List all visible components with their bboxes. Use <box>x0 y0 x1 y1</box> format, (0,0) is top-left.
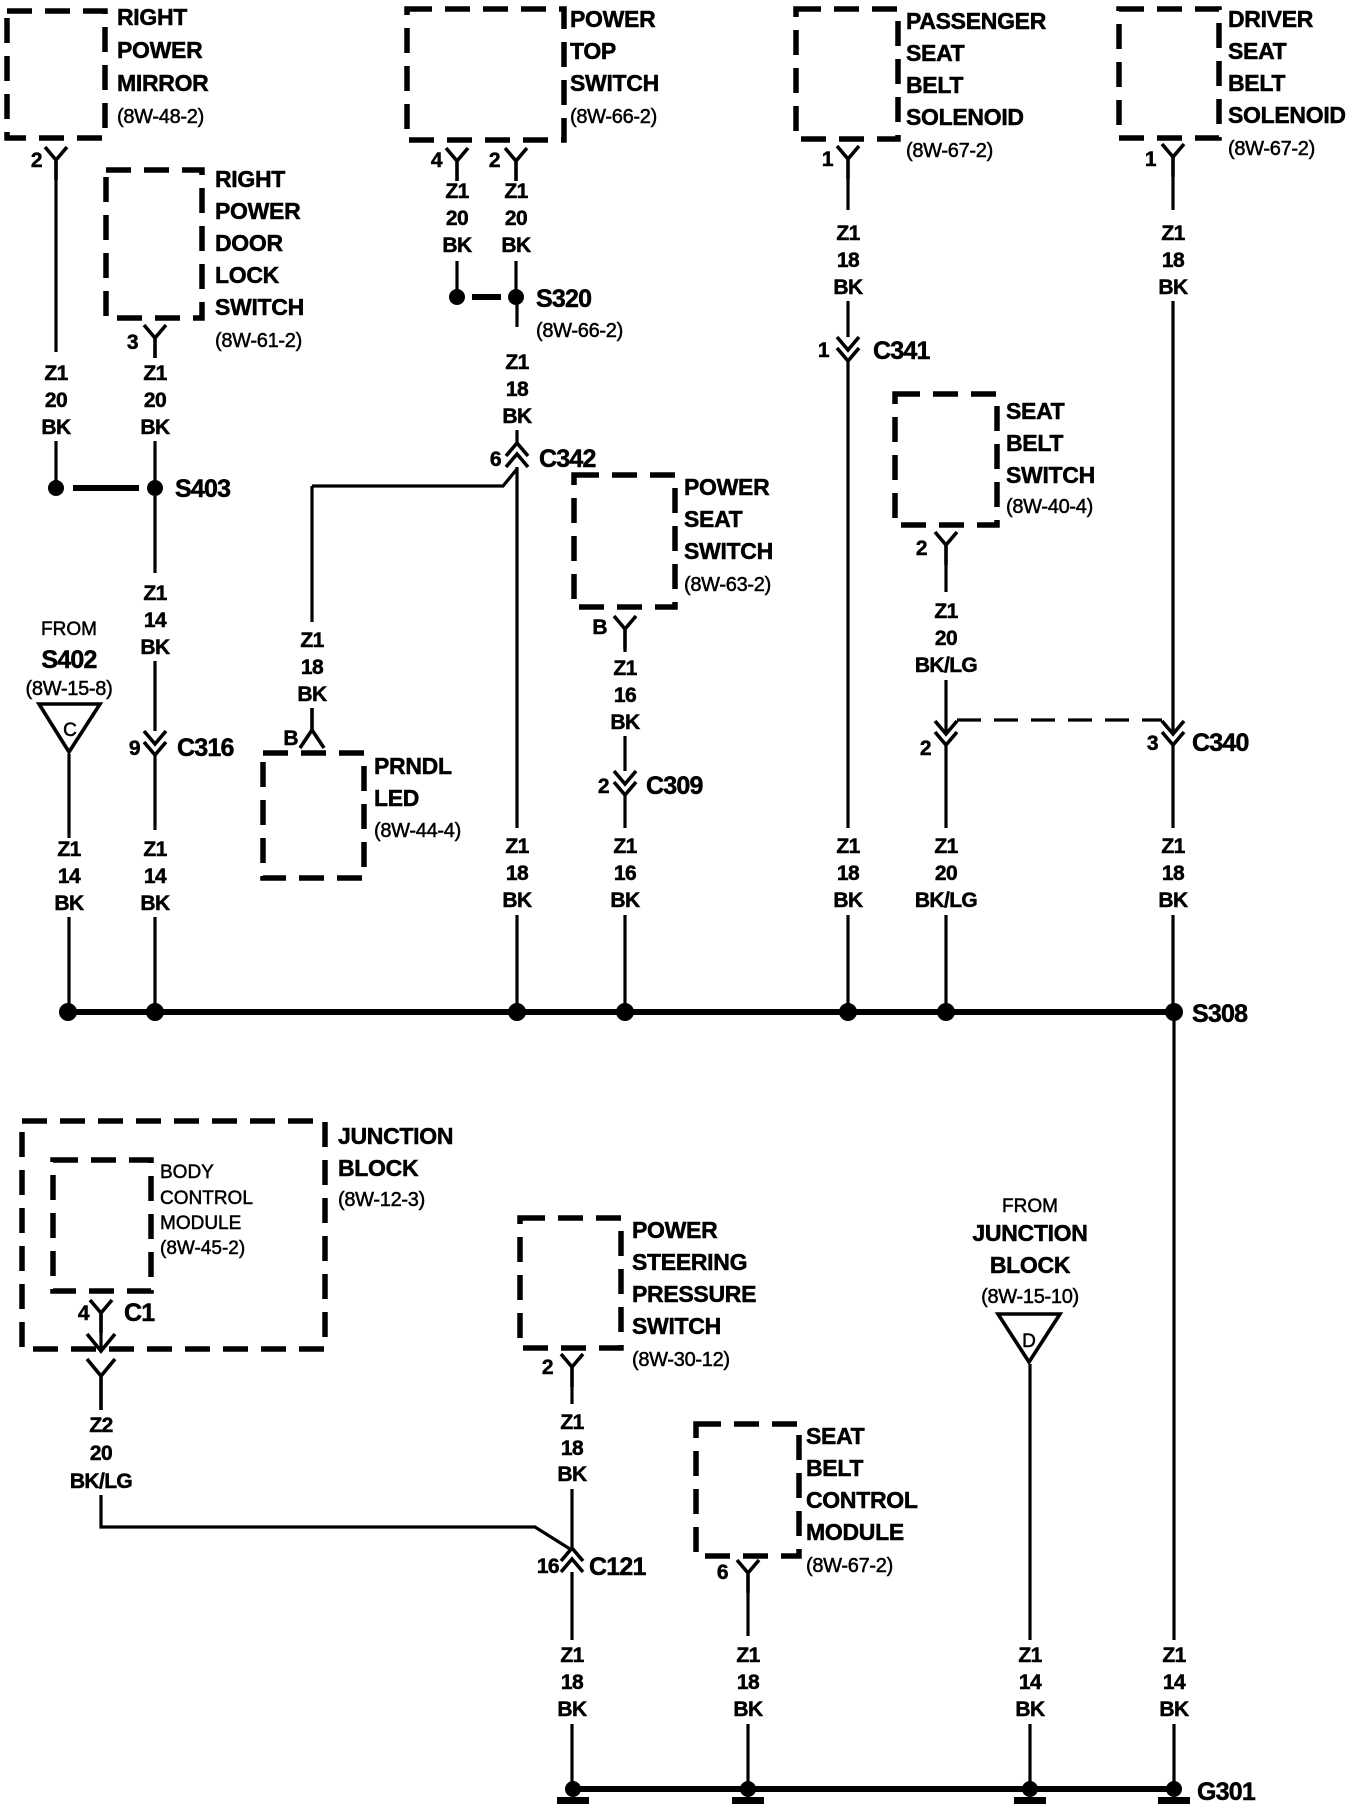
component DRIVER SEAT BELT SOLENOID (8W-67-2) <box>1119 6 1346 160</box>
pin B of POWER SEAT SWITCH <box>592 616 636 649</box>
svg-text:PRESSURE: PRESSURE <box>632 1281 756 1307</box>
wire Z1 20 BK/LG from C340 pin 2 to splice S308 <box>915 744 978 1012</box>
svg-text:SEAT: SEAT <box>806 1423 865 1449</box>
svg-text:Z1: Z1 <box>1162 1644 1186 1667</box>
off-page connector D FROM JUNCTION BLOCK (8W-15-10) <box>972 1196 1087 1362</box>
svg-text:20: 20 <box>505 207 527 230</box>
svg-text:BK: BK <box>41 416 71 439</box>
svg-text:(8W-61-2): (8W-61-2) <box>215 330 302 352</box>
svg-text:Z1: Z1 <box>613 657 637 680</box>
svg-text:BK: BK <box>733 1698 763 1721</box>
svg-text:MODULE: MODULE <box>160 1213 241 1234</box>
svg-text:S308: S308 <box>1192 1000 1248 1028</box>
svg-text:BK: BK <box>610 889 640 912</box>
svg-text:Z1: Z1 <box>143 362 167 385</box>
svg-text:POWER: POWER <box>117 37 203 63</box>
svg-text:C121: C121 <box>589 1553 646 1581</box>
splice S320 (8W-66-2) <box>449 285 623 342</box>
svg-text:Z1: Z1 <box>560 1411 584 1434</box>
component POWER TOP SWITCH (8W-66-2) <box>407 6 659 140</box>
svg-text:SWITCH: SWITCH <box>684 538 773 564</box>
svg-text:Z1: Z1 <box>445 180 469 203</box>
svg-text:(8W-15-10): (8W-15-10) <box>981 1286 1079 1308</box>
svg-text:(8W-15-8): (8W-15-8) <box>26 678 113 700</box>
wire Z1 18 BK from C342 to splice S308 <box>502 467 532 1012</box>
svg-text:3: 3 <box>127 331 138 354</box>
svg-text:POWER: POWER <box>570 6 656 32</box>
svg-text:18: 18 <box>837 249 860 272</box>
wire from PRNDL LED junction to C342 <box>312 469 517 622</box>
svg-text:2: 2 <box>542 1356 553 1379</box>
svg-text:18: 18 <box>1162 249 1185 272</box>
svg-text:SEAT: SEAT <box>906 40 965 66</box>
svg-text:BK: BK <box>297 683 327 706</box>
wire Z1 20 BK from door lock pin 3 to splice S403 <box>140 352 170 488</box>
splice S403 <box>48 475 230 503</box>
svg-text:BK: BK <box>140 892 170 915</box>
pin 1 of DRIVER SEAT BELT SOLENOID <box>1145 144 1184 177</box>
svg-text:Z1: Z1 <box>934 835 958 858</box>
svg-text:18: 18 <box>561 1437 584 1460</box>
svg-text:Z1: Z1 <box>300 629 324 652</box>
svg-text:Z1: Z1 <box>934 600 958 623</box>
svg-text:S402: S402 <box>41 646 96 674</box>
svg-text:BLOCK: BLOCK <box>990 1252 1071 1278</box>
svg-text:3: 3 <box>1147 732 1158 755</box>
svg-text:18: 18 <box>561 1671 584 1694</box>
svg-text:2: 2 <box>31 149 42 172</box>
svg-text:SOLENOID: SOLENOID <box>906 104 1024 130</box>
svg-text:BK: BK <box>140 416 170 439</box>
svg-text:SWITCH: SWITCH <box>215 294 304 320</box>
svg-text:BK: BK <box>140 636 170 659</box>
svg-text:PRNDL: PRNDL <box>374 753 452 779</box>
svg-text:4: 4 <box>431 149 443 172</box>
svg-text:BK/LG: BK/LG <box>915 889 978 912</box>
pin 3 of RIGHT POWER DOOR LOCK SWITCH <box>127 325 166 358</box>
svg-text:14: 14 <box>1163 1671 1186 1694</box>
connector C340 pin 3 <box>1147 721 1249 757</box>
svg-text:BK: BK <box>833 276 863 299</box>
wire Z1 18 BK from seat belt control module to ground G301 <box>733 1593 763 1789</box>
wire Z1 14 BK from S403 to connector C316 <box>140 496 170 731</box>
svg-text:14: 14 <box>144 609 167 632</box>
svg-text:SOLENOID: SOLENOID <box>1228 102 1346 128</box>
svg-text:C309: C309 <box>646 772 703 800</box>
svg-text:Z1: Z1 <box>613 835 637 858</box>
svg-text:18: 18 <box>301 656 324 679</box>
connector C340 pin 2 <box>920 721 957 760</box>
junction block lower pin <box>87 1359 115 1410</box>
svg-text:16: 16 <box>537 1555 559 1578</box>
svg-text:16: 16 <box>614 862 636 885</box>
component SEAT BELT CONTROL MODULE (8W-67-2) <box>696 1423 918 1577</box>
wire Z1 18 BK from pressure switch to connector C121 <box>557 1387 587 1548</box>
wire Z1 18 BK from passenger solenoid to connector C341 <box>833 179 863 337</box>
svg-text:Z1: Z1 <box>505 835 529 858</box>
svg-text:STEERING: STEERING <box>632 1249 747 1275</box>
svg-text:B: B <box>283 727 298 750</box>
svg-text:SWITCH: SWITCH <box>632 1313 721 1339</box>
svg-text:FROM: FROM <box>41 619 97 640</box>
wire Z1 16 BK from power seat switch to connector C309 <box>610 649 640 771</box>
svg-text:BK: BK <box>557 1698 587 1721</box>
svg-text:SEAT: SEAT <box>1006 398 1065 424</box>
svg-text:POWER: POWER <box>684 474 770 500</box>
svg-text:BK: BK <box>501 234 531 257</box>
svg-text:Z1: Z1 <box>143 838 167 861</box>
svg-text:C1: C1 <box>124 1299 155 1327</box>
component POWER STEERING PRESSURE SWITCH (8W-30-12) <box>520 1217 756 1371</box>
ground stud under first G301 dot <box>557 1797 589 1804</box>
wire Z1 20 BK from top switch pin 4 to splice S320 <box>442 180 472 297</box>
off-page connector C FROM S402 (8W-15-8) <box>26 619 113 752</box>
pin 6 of SEAT BELT CONTROL MODULE <box>717 1560 759 1593</box>
svg-text:SWITCH: SWITCH <box>570 70 659 96</box>
wire Z1 20 BK/LG from seat belt switch to connector C340 <box>915 565 978 733</box>
ground stud under second G301 dot <box>732 1797 764 1804</box>
ground stud under fourth G301 dot <box>1158 1797 1190 1804</box>
svg-text:1: 1 <box>1145 148 1157 171</box>
pin 2 of SEAT BELT SWITCH <box>916 532 957 565</box>
svg-text:BK: BK <box>442 234 472 257</box>
svg-text:16: 16 <box>614 684 636 707</box>
svg-text:LED: LED <box>374 785 419 811</box>
component JUNCTION BLOCK (8W-12-3) <box>22 1121 453 1349</box>
svg-text:BK: BK <box>1159 1698 1189 1721</box>
svg-text:RIGHT: RIGHT <box>215 166 285 192</box>
svg-text:BLOCK: BLOCK <box>338 1155 419 1181</box>
svg-text:18: 18 <box>837 862 860 885</box>
svg-text:Z1: Z1 <box>57 838 81 861</box>
svg-text:CONTROL: CONTROL <box>160 1188 253 1209</box>
svg-text:Z1: Z1 <box>836 835 860 858</box>
svg-text:2: 2 <box>916 537 927 560</box>
svg-text:CONTROL: CONTROL <box>806 1487 918 1513</box>
svg-text:SEAT: SEAT <box>1228 38 1287 64</box>
svg-text:Z1: Z1 <box>504 180 528 203</box>
svg-text:Z2: Z2 <box>89 1414 112 1437</box>
svg-text:(8W-48-2): (8W-48-2) <box>117 106 204 128</box>
svg-text:BK: BK <box>1158 276 1188 299</box>
svg-text:C341: C341 <box>873 337 930 365</box>
svg-text:(8W-44-4): (8W-44-4) <box>374 820 461 842</box>
wire Z1 18 BK from C121 to ground G301 <box>557 1572 587 1789</box>
svg-text:S320: S320 <box>536 285 591 313</box>
svg-text:BK/LG: BK/LG <box>915 654 978 677</box>
pin 2 of POWER STEERING PRESSURE SWITCH <box>542 1354 583 1387</box>
svg-text:2: 2 <box>489 149 500 172</box>
wire Z1 14 BK from triangle D to ground G301 <box>1015 1364 1045 1789</box>
pin 2 of POWER TOP SWITCH <box>489 148 527 181</box>
svg-text:POWER: POWER <box>215 198 301 224</box>
pin 2 of RIGHT POWER MIRROR <box>31 147 67 180</box>
svg-text:Z1: Z1 <box>1161 835 1185 858</box>
svg-text:BK: BK <box>502 405 532 428</box>
svg-text:BK/LG: BK/LG <box>70 1470 133 1493</box>
svg-text:LOCK: LOCK <box>215 262 280 288</box>
svg-text:C: C <box>63 720 77 741</box>
svg-text:Z1: Z1 <box>505 351 529 374</box>
svg-text:D: D <box>1022 1331 1036 1352</box>
svg-text:Z1: Z1 <box>736 1644 760 1667</box>
component PASSENGER SEAT BELT SOLENOID (8W-67-2) <box>796 8 1047 162</box>
wire Z1 14 BK from C316 to splice S308 <box>140 755 170 1012</box>
svg-text:(8W-67-2): (8W-67-2) <box>806 1555 893 1577</box>
svg-text:RIGHT: RIGHT <box>117 4 187 30</box>
svg-text:20: 20 <box>90 1442 112 1465</box>
wire Z1 18 BK from S320 to connector C342 <box>502 297 532 443</box>
svg-text:C340: C340 <box>1192 729 1249 757</box>
svg-text:JUNCTION: JUNCTION <box>338 1123 453 1149</box>
svg-text:20: 20 <box>935 862 957 885</box>
svg-text:9: 9 <box>129 737 140 760</box>
svg-text:20: 20 <box>144 389 166 412</box>
connector C316 pin 9 <box>129 731 234 762</box>
svg-text:(8W-66-2): (8W-66-2) <box>570 106 657 128</box>
svg-text:18: 18 <box>506 378 529 401</box>
svg-text:DRIVER: DRIVER <box>1228 6 1314 32</box>
pin 4 of POWER TOP SWITCH <box>431 148 468 181</box>
svg-text:Z1: Z1 <box>1161 222 1185 245</box>
wire Z1 14 BK from triangle C to splice S308 <box>54 754 84 1012</box>
svg-text:2: 2 <box>920 737 931 760</box>
svg-text:(8W-67-2): (8W-67-2) <box>906 140 993 162</box>
svg-text:Z1: Z1 <box>143 582 167 605</box>
ground stud under third G301 dot <box>1014 1797 1046 1804</box>
connector C121 pin 16 <box>537 1548 647 1581</box>
connector C1 pin 4 of BODY CONTROL MODULE <box>78 1299 155 1333</box>
svg-text:DOOR: DOOR <box>215 230 283 256</box>
connector C342 pin 6 <box>490 443 596 473</box>
svg-text:POWER: POWER <box>632 1217 718 1243</box>
svg-text:BK: BK <box>557 1463 587 1486</box>
svg-text:18: 18 <box>1162 862 1185 885</box>
svg-text:Z1: Z1 <box>836 222 860 245</box>
svg-text:BK: BK <box>833 889 863 912</box>
svg-text:MODULE: MODULE <box>806 1519 904 1545</box>
svg-text:1: 1 <box>818 339 830 362</box>
svg-text:BK: BK <box>54 892 84 915</box>
wire Z1 18 BK to PRNDL LED pin B <box>283 629 327 750</box>
wire Z1 16 BK from C309 to splice S308 <box>610 795 640 1012</box>
svg-text:BODY: BODY <box>160 1162 214 1183</box>
connector C341 pin 1 <box>818 337 931 365</box>
svg-text:PASSENGER: PASSENGER <box>906 8 1047 34</box>
svg-text:G301: G301 <box>1197 1778 1256 1806</box>
svg-text:(8W-12-3): (8W-12-3) <box>338 1189 425 1211</box>
svg-text:BK: BK <box>610 711 640 734</box>
svg-text:B: B <box>592 616 607 639</box>
ground G301 bus <box>565 1778 1256 1806</box>
svg-text:Z1: Z1 <box>44 362 68 385</box>
svg-text:Z1: Z1 <box>560 1644 584 1667</box>
connector C309 pin 2 <box>598 771 703 800</box>
svg-text:(8W-66-2): (8W-66-2) <box>536 320 623 342</box>
svg-text:6: 6 <box>490 448 501 471</box>
component RIGHT POWER MIRROR (8W-48-2) <box>7 4 209 138</box>
svg-text:C316: C316 <box>177 734 234 762</box>
splice S308 bus <box>59 1000 1248 1028</box>
svg-text:Z1: Z1 <box>1018 1644 1042 1667</box>
svg-text:20: 20 <box>45 389 67 412</box>
svg-text:BK: BK <box>1158 889 1188 912</box>
svg-text:4: 4 <box>78 1302 90 1325</box>
wire Z2 20 BK/LG from junction block to C121 <box>70 1414 570 1549</box>
svg-text:S403: S403 <box>175 475 230 503</box>
svg-text:14: 14 <box>1019 1671 1042 1694</box>
svg-text:BK: BK <box>1015 1698 1045 1721</box>
svg-text:BELT: BELT <box>1228 70 1285 96</box>
svg-text:20: 20 <box>935 627 957 650</box>
svg-text:(8W-40-4): (8W-40-4) <box>1006 496 1093 518</box>
component PRNDL LED (8W-44-4) <box>263 753 461 878</box>
svg-text:BELT: BELT <box>806 1455 863 1481</box>
component SEAT BELT SWITCH (8W-40-4) <box>895 394 1095 525</box>
svg-text:2: 2 <box>598 775 609 798</box>
component POWER SEAT SWITCH (8W-63-2) <box>574 474 773 607</box>
svg-text:JUNCTION: JUNCTION <box>972 1220 1087 1246</box>
wire Z1 18 BK from C340 pin 3 to splice S308 <box>1158 744 1188 1012</box>
wire Z1 18 BK from driver solenoid to connector C340 <box>1158 177 1188 733</box>
svg-text:SEAT: SEAT <box>684 506 743 532</box>
pin 1 of PASSENGER SEAT BELT SOLENOID <box>822 146 859 179</box>
svg-text:14: 14 <box>58 865 81 888</box>
svg-text:(8W-67-2): (8W-67-2) <box>1228 138 1315 160</box>
component BODY CONTROL MODULE (8W-45-2) <box>53 1160 253 1291</box>
svg-text:(8W-45-2): (8W-45-2) <box>160 1238 245 1259</box>
component RIGHT POWER DOOR LOCK SWITCH (8W-61-2) <box>106 166 304 352</box>
svg-text:TOP: TOP <box>570 38 616 64</box>
wire Z1 20 BK from top switch pin 2 to splice S320 <box>501 180 531 297</box>
svg-text:18: 18 <box>737 1671 760 1694</box>
svg-text:(8W-63-2): (8W-63-2) <box>684 574 771 596</box>
svg-text:20: 20 <box>446 207 468 230</box>
wire Z1 18 BK from C341 to splice S308 <box>833 361 863 1012</box>
svg-text:MIRROR: MIRROR <box>117 70 209 96</box>
svg-text:14: 14 <box>144 865 167 888</box>
svg-text:BELT: BELT <box>906 72 963 98</box>
svg-text:BELT: BELT <box>1006 430 1063 456</box>
svg-text:(8W-30-12): (8W-30-12) <box>632 1349 730 1371</box>
svg-text:SWITCH: SWITCH <box>1006 462 1095 488</box>
connector C340 dashed link <box>957 718 1162 721</box>
svg-text:FROM: FROM <box>1002 1196 1058 1217</box>
svg-text:6: 6 <box>717 1561 728 1584</box>
svg-text:1: 1 <box>822 148 834 171</box>
wire from S308 to G301 (driver column) <box>1159 1012 1189 1789</box>
svg-text:C342: C342 <box>539 445 596 473</box>
svg-text:18: 18 <box>506 862 529 885</box>
svg-text:BK: BK <box>502 889 532 912</box>
wire Z1 20 BK from mirror pin 2 to splice S403 <box>41 160 71 488</box>
junction block exit arrow <box>87 1313 115 1351</box>
